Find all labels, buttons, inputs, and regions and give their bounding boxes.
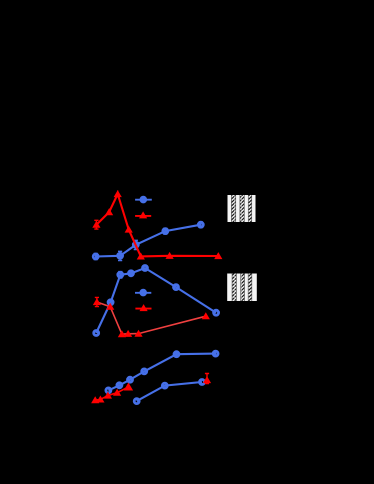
top panel blue error bars [94,222,203,261]
top panel blue markers [93,222,203,259]
bottom panel red error bars [95,374,209,403]
bottom panel lower blue line [137,382,202,401]
bottom panel upper blue line [108,354,215,391]
middle panel red markers [93,298,210,337]
bottom panel upper blue error bars [177,351,216,357]
top panel red markers [92,190,222,259]
inset stripe image 1 [228,195,256,222]
middle panel red series line [97,302,206,334]
top panel red series line [96,194,218,256]
top legend blue entry [135,197,152,201]
middle panel red error bars [95,297,99,306]
bottom panel red markers [91,376,211,403]
middle legend red entry [135,304,151,311]
top panel red error bars [94,191,218,259]
bottom panel upper blue markers [106,351,218,393]
middle panel blue series line [96,268,216,333]
middle panel blue markers [94,266,219,336]
top panel blue series line [96,225,201,257]
bottom panel lower blue markers [134,380,204,404]
inset stripe image 2 [227,274,257,302]
middle panel blue error bars [118,270,131,278]
bottom panel red series line [95,387,128,400]
top legend red entry [135,211,151,218]
middle legend blue entry [135,290,151,294]
